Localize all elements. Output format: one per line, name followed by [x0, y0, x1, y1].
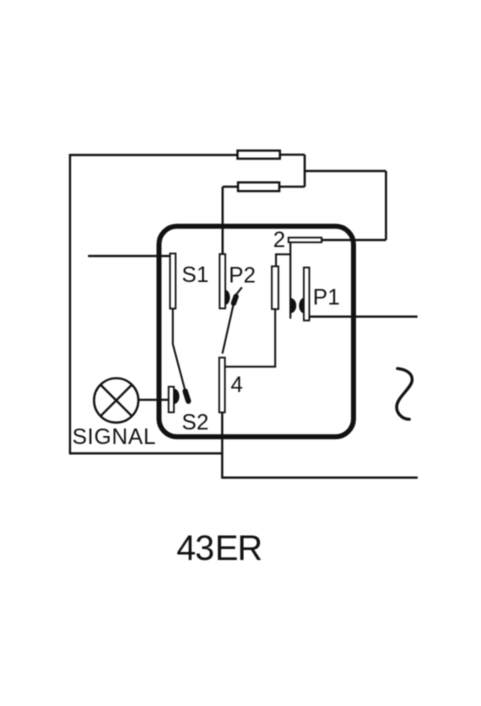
- wire contact 4 bottom exit: [221, 412, 223, 477]
- lamp SIGNAL cross: [101, 385, 132, 416]
- svg-text:2: 2: [273, 227, 285, 252]
- wire left vertical: [69, 154, 71, 453]
- contact bar middle (terminal 2 fixed contact): [272, 266, 279, 309]
- wire terminal 2 down to P1 contact line: [289, 242, 291, 319]
- switch arm P2 upper segment: [236, 287, 242, 294]
- wire right drop to terminal 2: [385, 171, 387, 240]
- relay box outline: [159, 226, 354, 436]
- contact dome P1 left: [291, 298, 296, 313]
- svg-text:4: 4: [231, 372, 243, 397]
- contact bar 4: [219, 358, 225, 413]
- wire resistor junction vertical: [304, 155, 306, 187]
- contact bar S1: [170, 254, 176, 309]
- svg-text:SIGNAL: SIGNAL: [72, 424, 156, 449]
- wire into terminal 2 bar: [322, 239, 386, 241]
- wire R2 right lead: [279, 186, 304, 188]
- resistor R2: [238, 182, 279, 191]
- contact bar S2: [169, 387, 174, 413]
- contact bar P2: [220, 254, 226, 308]
- wire S1 to S2 arm lead: [172, 309, 174, 344]
- terminal 2 bar: [289, 238, 322, 243]
- wire P1 output: [309, 316, 418, 318]
- svg-text:43: 43: [177, 529, 214, 568]
- wire P2 coil drop: [222, 187, 224, 255]
- resistor R1: [238, 151, 280, 159]
- wire bottom output horizontal: [221, 477, 418, 479]
- contact bar P1: [304, 268, 310, 321]
- wire lamp to S2: [138, 399, 168, 401]
- lamp SIGNAL circle: [94, 378, 138, 422]
- switch arm P2 pivot blob: [234, 297, 236, 304]
- svg-text:S1: S1: [182, 262, 209, 287]
- wire R2 left lead: [223, 186, 238, 188]
- wire step to middle contact: [276, 254, 290, 266]
- svg-text:P2: P2: [229, 263, 256, 288]
- contact dome P2: [225, 290, 230, 305]
- svg-text:S2: S2: [182, 410, 209, 435]
- contact dome P1 right: [299, 298, 304, 313]
- wire R1 right lead: [280, 154, 305, 156]
- wire middle contact drop to contact 4: [225, 309, 275, 367]
- wire bottom-left horizontal: [69, 452, 222, 454]
- wire junction to right: [305, 170, 386, 172]
- svg-text:P1: P1: [313, 284, 340, 309]
- contact dome S2: [174, 389, 179, 404]
- switch arm P2 lower segment: [222, 305, 233, 354]
- switch arm S2 tip blob: [185, 391, 188, 401]
- switch arm S2: [173, 344, 186, 392]
- svg-text:ER: ER: [215, 529, 262, 568]
- wire S1 left stub: [88, 255, 170, 257]
- wire break squiggle: [397, 369, 412, 420]
- wire top-left horizontal: [69, 154, 238, 156]
